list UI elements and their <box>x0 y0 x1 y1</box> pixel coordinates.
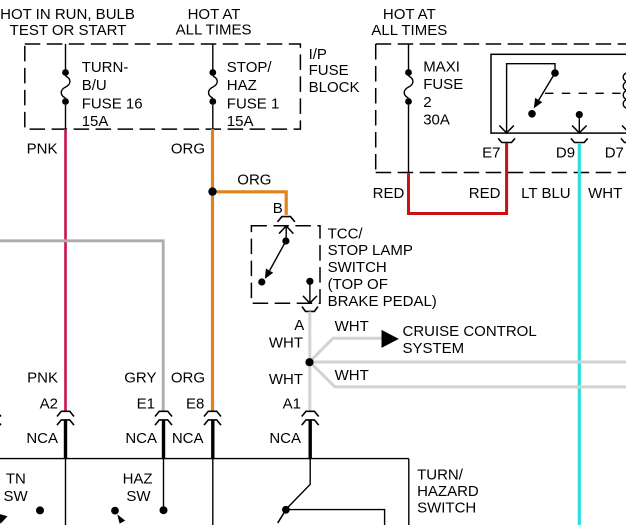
I/P fuse block dashed box <box>25 44 301 129</box>
connector E7 female cup <box>498 138 515 142</box>
fuse F1 STOP/HAZ 15A <box>209 69 218 105</box>
label: HAZ SW <box>123 471 153 506</box>
svg-text:WHT: WHT <box>335 318 369 335</box>
svg-text:WHT: WHT <box>269 334 303 351</box>
svg-text:B: B <box>273 200 283 217</box>
svg-text:BRAKE PEDAL): BRAKE PEDAL) <box>328 293 437 310</box>
wire: A1 continues to turn switch pivot <box>286 459 310 510</box>
svg-text:D9: D9 <box>556 145 575 162</box>
svg-text:SYSTEM: SYSTEM <box>403 340 465 357</box>
wire: PNK from fuse 16 down to A2 <box>64 129 67 411</box>
wire: GRY from left to E1 <box>0 241 163 411</box>
svg-text:ORG: ORG <box>237 172 271 189</box>
turn switch lever arm <box>278 512 285 523</box>
label: cruise control system <box>403 323 537 357</box>
connector D7 female cup (clipped) <box>621 138 626 142</box>
relay contact pivot dot <box>551 69 559 77</box>
pin A arrow inside TCC box <box>303 296 317 303</box>
junction: WHT splice <box>305 358 313 366</box>
svg-text:E1: E1 <box>137 396 155 413</box>
svg-text:TN: TN <box>6 471 26 488</box>
svg-text:LT BLU: LT BLU <box>521 185 570 202</box>
underhood dashed box <box>376 44 626 173</box>
wire: relay feed L to contact <box>507 64 555 133</box>
connector E1 <box>155 411 172 425</box>
wire: NCA arrow into E1 <box>162 420 165 458</box>
label: fuse 1 <box>227 59 280 130</box>
turn switch lever (clipped) <box>0 514 8 524</box>
svg-text:SWITCH: SWITCH <box>328 259 387 276</box>
svg-text:SW: SW <box>126 488 151 505</box>
svg-text:ALL TIMES: ALL TIMES <box>371 22 447 39</box>
relay fixed contact dot <box>528 110 536 118</box>
relay actuation dashed link <box>545 92 623 94</box>
connector B male arrow <box>279 226 293 241</box>
svg-text:FUSE 16: FUSE 16 <box>82 95 143 112</box>
wire: feed into fuse 1 <box>212 44 214 70</box>
svg-text:SW: SW <box>4 488 29 505</box>
relay coil <box>623 73 626 109</box>
TCC switch fixed contact dot <box>258 278 265 285</box>
wire: TCC output to pin A arrow <box>309 281 311 303</box>
svg-text:NCA: NCA <box>125 430 157 447</box>
connector (cut off at left edge) <box>0 411 1 425</box>
turn switch fixed contact dot <box>36 506 44 514</box>
hazard switch lever <box>111 507 125 524</box>
svg-text:D7: D7 <box>605 145 624 162</box>
svg-text:A: A <box>294 317 304 334</box>
svg-text:A2: A2 <box>40 396 58 413</box>
wire: RED from maxi fuse to relay pin E7 <box>409 143 507 214</box>
wire: fuse 1 output to box edge <box>212 105 214 129</box>
relay movable arm with arrow <box>534 73 555 108</box>
svg-text:FUSE 1: FUSE 1 <box>227 95 280 112</box>
svg-text:A1: A1 <box>283 396 301 413</box>
svg-text:I/P: I/P <box>309 46 327 63</box>
svg-text:CRUISE CONTROL: CRUISE CONTROL <box>403 323 537 340</box>
junction: ORG splice <box>208 187 216 195</box>
svg-text:FUSE: FUSE <box>423 76 463 93</box>
svg-text:15A: 15A <box>227 113 254 130</box>
svg-text:GRY: GRY <box>124 370 156 387</box>
svg-text:RED: RED <box>469 185 501 202</box>
wire: WHT from splice down to A1 <box>308 362 311 411</box>
label: maxi fuse 2 <box>423 59 463 129</box>
wire: D9 contact to pin arrow <box>578 115 580 133</box>
relay output contact dot (D9) <box>576 111 583 118</box>
svg-text:WHT: WHT <box>588 185 622 202</box>
node: HOT AT ALL TIMES (I/P) <box>176 6 252 39</box>
svg-text:STOP LAMP: STOP LAMP <box>328 242 413 259</box>
connector A1 <box>302 411 319 425</box>
wire: A2 continues inside switch box <box>65 459 67 525</box>
svg-text:B/U: B/U <box>82 77 107 94</box>
wire: maxi fuse output down to dashed box edge <box>408 105 410 173</box>
svg-text:15A: 15A <box>82 113 109 130</box>
svg-text:HOT AT: HOT AT <box>383 6 436 23</box>
label: turn/hazard switch <box>417 467 479 517</box>
pin D7 arrow inside relay box (clipped) <box>622 115 626 133</box>
svg-text:BLOCK: BLOCK <box>309 79 360 96</box>
svg-text:HAZ: HAZ <box>123 471 153 488</box>
wire: WHT branch to cruise control <box>310 338 382 362</box>
turn/hazard switch box <box>0 459 409 525</box>
connector B female <box>278 217 295 222</box>
svg-text:HAZ: HAZ <box>227 77 257 94</box>
svg-text:HAZARD: HAZARD <box>417 483 479 500</box>
I/P fuse block label <box>309 46 360 96</box>
hazard switch fixed contact dot <box>160 506 168 514</box>
connector A2 <box>57 411 74 425</box>
wire: E8 continues inside switch box <box>212 459 214 525</box>
wire: from pivot right and down <box>288 510 385 525</box>
svg-text:WHT: WHT <box>269 371 303 388</box>
wire: E1 continues inside switch box <box>163 459 165 508</box>
svg-text:NCA: NCA <box>269 430 301 447</box>
svg-text:2: 2 <box>423 94 431 111</box>
fuse MAXI FUSE 2 30A <box>404 69 413 105</box>
wire: LT BLU from D9 down <box>578 143 581 525</box>
svg-text:E8: E8 <box>186 396 204 413</box>
pin E7 arrow inside relay box <box>499 126 514 133</box>
svg-text:STOP/: STOP/ <box>227 59 273 76</box>
connector A female cup <box>302 307 318 312</box>
svg-text:30A: 30A <box>423 112 450 129</box>
svg-text:(TOP OF: (TOP OF <box>328 276 388 293</box>
wire: NCA arrow into E8 <box>211 420 214 458</box>
node: HOT IN RUN, BULB TEST OR START <box>0 6 135 39</box>
label: TCC/STOP LAMP SWITCH <box>328 226 437 311</box>
arrow: to cruise control system <box>382 330 399 348</box>
svg-text:HOT AT: HOT AT <box>188 6 241 23</box>
relay solid box <box>491 54 626 133</box>
svg-text:TURN/: TURN/ <box>417 467 464 484</box>
svg-text:PNK: PNK <box>27 141 58 158</box>
wire: ORG branch to connector B <box>213 192 287 215</box>
wire: WHT branch right (middle) <box>310 361 626 364</box>
svg-text:HOT IN RUN, BULB: HOT IN RUN, BULB <box>0 6 135 23</box>
wire: NCA arrow into A2 <box>64 420 67 458</box>
svg-text:ALL TIMES: ALL TIMES <box>176 21 252 38</box>
svg-text:E7: E7 <box>482 145 500 162</box>
TCC switch output contact dot <box>306 278 313 285</box>
wire: WHT branch right (lower) <box>310 362 626 387</box>
svg-text:WHT: WHT <box>335 367 369 384</box>
svg-text:SWITCH: SWITCH <box>417 500 476 517</box>
TCC switch movable arm with arrow <box>265 241 286 279</box>
label: fuse 16 <box>82 59 143 130</box>
connector E8 <box>204 411 221 425</box>
wire: fuse 16 output to box edge <box>65 105 67 129</box>
node: HOT AT ALL TIMES (underhood) <box>371 6 447 39</box>
wire: feed into fuse 16 <box>65 44 67 70</box>
svg-text:MAXI: MAXI <box>423 59 460 76</box>
label: TN SW <box>4 471 29 506</box>
connector D9 female cup <box>571 138 588 142</box>
svg-text:NCA: NCA <box>172 430 204 447</box>
pin D9 arrow inside relay box <box>572 126 587 133</box>
svg-text:TURN-: TURN- <box>82 59 129 76</box>
svg-text:TCC/: TCC/ <box>328 226 364 243</box>
svg-text:FUSE: FUSE <box>309 62 349 79</box>
svg-text:PNK: PNK <box>27 370 58 387</box>
wire: NCA arrow into A1 <box>309 420 312 458</box>
wire: ORG from fuse 1 down to E8 <box>211 129 214 411</box>
fuse F16 TURN-B/U 15A <box>61 69 70 105</box>
svg-text:TEST OR START: TEST OR START <box>10 22 127 39</box>
turn switch pivot dot <box>282 506 290 514</box>
svg-text:ORG: ORG <box>171 370 205 387</box>
wire: WHT from A down to splice <box>308 312 311 362</box>
wire: feed into maxi fuse 2 <box>408 44 410 70</box>
TCC switch input dot <box>282 237 289 244</box>
svg-text:RED: RED <box>373 185 405 202</box>
svg-text:ORG: ORG <box>171 141 205 158</box>
TCC/stop lamp switch dashed box <box>251 226 320 304</box>
svg-text:NCA: NCA <box>26 430 58 447</box>
